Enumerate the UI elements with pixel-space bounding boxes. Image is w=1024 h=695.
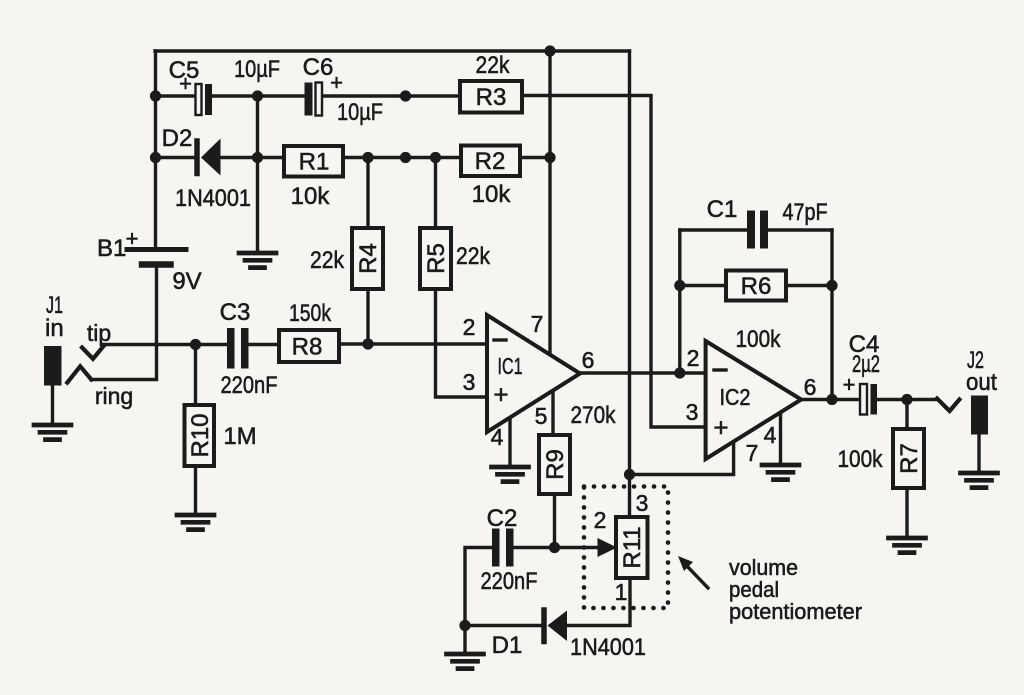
wire C6 to node above R3: [322, 94, 406, 97]
svg-text:+: +: [843, 372, 856, 397]
svg-text:3: 3: [686, 399, 699, 425]
svg-text:4: 4: [764, 422, 777, 448]
wire battery negative down and to ring contact: [91, 267, 157, 380]
node D2-R1 junction: [252, 152, 263, 163]
node feedback R6 left: [674, 280, 685, 291]
capacitor C5: [169, 56, 280, 115]
svg-text:+: +: [493, 380, 508, 410]
wire R9 bottom to C2 net: [553, 494, 556, 548]
svg-text:47pF: 47pF: [783, 199, 828, 226]
jack J2: [937, 347, 997, 472]
svg-text:2: 2: [463, 314, 476, 340]
wire tip contact to C3: [103, 343, 228, 346]
wire D1 left segment: [465, 624, 542, 627]
svg-text:2: 2: [594, 507, 607, 533]
node C5 left row1: [150, 90, 161, 101]
wire C3 to R8: [248, 343, 279, 346]
svg-text:1M: 1M: [223, 423, 256, 450]
svg-text:150k: 150k: [289, 300, 332, 327]
wire D1 node to ground: [463, 626, 466, 654]
svg-text:D2: D2: [162, 125, 193, 152]
capacitor C3: [220, 299, 278, 399]
svg-text:+: +: [179, 71, 192, 96]
resistor R9: [539, 402, 616, 494]
dotted enclosure volume pedal potentiometer: [584, 487, 668, 609]
wire IC1 pin 5 down to R9: [551, 391, 554, 436]
svg-text:R4: R4: [355, 243, 382, 274]
annotation arrow to R11: [678, 556, 708, 588]
node +9V / R11 pin3 / IC2 pin7 junction: [624, 469, 635, 480]
svg-text:1: 1: [615, 579, 628, 605]
wire IC2 pin 4 stem to ground: [779, 412, 782, 464]
svg-text:C3: C3: [220, 299, 251, 326]
svg-text:3: 3: [463, 369, 476, 395]
wire top +9V rail horizontal: [155, 49, 630, 52]
node top rail / IC1 pin7 branch: [544, 45, 555, 56]
svg-text:D1: D1: [492, 632, 523, 659]
node IC2 output: [826, 394, 837, 405]
wire C2 right to R11 wiper arrow: [514, 546, 601, 550]
svg-text:B1: B1: [97, 235, 126, 262]
node R5 top: [430, 152, 441, 163]
node R4 bottom on pin2 wire: [362, 338, 373, 349]
wire R6 left: [680, 284, 726, 287]
svg-text:22k: 22k: [456, 243, 491, 270]
node C6 / R3 left junction: [400, 90, 411, 101]
svg-text:R7: R7: [896, 443, 923, 474]
diode D1: [492, 610, 646, 661]
ground IC1 pin 4: [492, 467, 529, 482]
node R2 right on rail: [544, 152, 555, 163]
wire IC2 pin 7 to +9V net: [630, 442, 734, 475]
ground J2: [961, 473, 998, 488]
wire output node down to R7: [905, 400, 908, 430]
svg-text:ring: ring: [95, 383, 133, 409]
wire R8 to IC1 pin 2: [339, 342, 487, 345]
resistor R3: [460, 52, 522, 113]
svg-text:220nF: 220nF: [221, 372, 278, 399]
resistor R5: [420, 228, 491, 289]
wire IC1 output to IC2 pin 2: [580, 371, 706, 374]
ground C2/D1 node: [447, 654, 484, 669]
svg-text:1N4001: 1N4001: [570, 634, 646, 661]
svg-text:2: 2: [687, 345, 700, 371]
battery B1: [97, 226, 202, 295]
ground R7: [889, 538, 926, 553]
svg-text:+: +: [713, 413, 728, 443]
svg-text:10k: 10k: [291, 183, 331, 210]
node R9 / C2 junction: [549, 542, 560, 553]
svg-text:tip: tip: [87, 320, 111, 346]
svg-text:R5: R5: [423, 243, 450, 274]
svg-text:4: 4: [491, 424, 504, 450]
svg-text:270k: 270k: [571, 402, 617, 429]
wire C5-C6 junction down to ground: [256, 96, 259, 251]
svg-text:+: +: [330, 70, 343, 95]
wire R5 top stem: [434, 158, 437, 229]
capacitor C4: [843, 331, 880, 415]
svg-text:IC2: IC2: [720, 384, 751, 410]
svg-text:R10: R10: [187, 413, 214, 457]
resistor R7: [838, 429, 925, 488]
ground IC2 pin 4: [762, 465, 799, 480]
wire feedback top left to C1: [680, 228, 748, 231]
wire R7 bottom to ground: [905, 487, 908, 537]
wire row1 segment to C5: [156, 94, 197, 97]
capacitor C2: [481, 505, 538, 595]
svg-text:C6: C6: [303, 54, 334, 81]
wire R3 output to IC2 pin 3: [522, 96, 706, 428]
node C5-C6 junction: [252, 90, 263, 101]
svg-text:7: 7: [746, 440, 759, 466]
svg-text:2µ2: 2µ2: [852, 351, 880, 378]
wire R4 bottom stem to pin2 net: [366, 289, 369, 344]
wire C1 to right corner: [767, 228, 832, 231]
resistor R1: [284, 146, 343, 210]
svg-text:C1: C1: [707, 196, 738, 223]
svg-text:22k: 22k: [476, 52, 511, 79]
svg-text:100k: 100k: [736, 326, 782, 353]
resistor R2: [461, 146, 520, 209]
capacitor C1: [707, 196, 828, 249]
wire R10 bottom to ground: [194, 466, 197, 514]
node C2 / D1 junction: [459, 620, 470, 631]
wire left vertical (top rail down to battery): [154, 51, 157, 247]
resistor R6: [726, 271, 786, 354]
wire C4 to J2 tip: [877, 398, 937, 401]
svg-text:10µF: 10µF: [337, 99, 383, 126]
wire feedback vertical up from pin2 node of IC2: [678, 230, 681, 373]
node tip / R10 junction: [190, 339, 201, 350]
wire R6 right: [786, 284, 832, 287]
node C4 / R7 junction: [901, 394, 912, 405]
svg-text:5: 5: [535, 403, 548, 429]
svg-text:R3: R3: [476, 84, 507, 111]
potentiometer R11: [594, 490, 649, 605]
wire R2 right to +9V rail: [520, 156, 550, 159]
svg-text:22k: 22k: [310, 247, 345, 274]
svg-text:10k: 10k: [472, 181, 512, 208]
wire C5 to C6: [211, 94, 305, 97]
wire R4 top stem: [366, 158, 369, 229]
svg-text:6: 6: [582, 347, 595, 373]
svg-text:+: +: [126, 226, 139, 251]
node row2 left: [150, 152, 161, 163]
diode D2: [162, 125, 251, 212]
jack J1: [44, 292, 133, 424]
wire node on tip net down to R10: [194, 345, 197, 406]
wire feedback right vertical down to output: [830, 230, 833, 400]
svg-text:R9: R9: [542, 449, 569, 480]
svg-text:R11: R11: [619, 526, 646, 568]
wire IC2 output to C4: [801, 398, 860, 401]
svg-text:220nF: 220nF: [481, 568, 538, 595]
wire R5 bottom to IC1 pin 3: [436, 289, 488, 397]
resistor R4: [310, 228, 383, 289]
svg-text:R2: R2: [475, 148, 506, 175]
wire D1 anode to R11 pin 1: [566, 578, 630, 626]
annotation text volume pedal potentiometer: [729, 555, 862, 624]
svg-text:100k: 100k: [838, 446, 884, 473]
op-amp IC2: [686, 341, 817, 466]
node R4 top: [362, 152, 373, 163]
node IC1 out / feedback junction: [674, 367, 685, 378]
ground R10: [177, 515, 214, 530]
ground J1: [34, 425, 71, 440]
resistor R8: [279, 300, 339, 362]
svg-text:in: in: [45, 315, 64, 342]
wire +9V rail down to IC1 pin 7: [548, 51, 551, 355]
svg-text:R6: R6: [741, 273, 772, 300]
ground rail splitter (below D2 row): [239, 253, 276, 268]
svg-text:R8: R8: [292, 334, 323, 361]
node feedback R6 right: [826, 280, 837, 291]
svg-text:out: out: [966, 369, 997, 396]
wire IC1 pin 4 stem to ground: [508, 418, 511, 466]
svg-text:9V: 9V: [172, 268, 201, 295]
svg-text:3: 3: [636, 490, 649, 516]
wire R1 right to R2 left: [343, 156, 461, 159]
svg-text:6: 6: [804, 374, 817, 400]
svg-text:IC1: IC1: [498, 353, 523, 379]
svg-text:7: 7: [531, 311, 544, 337]
capacitor C6: [303, 54, 383, 126]
wire rail from top corner down to R11 pin 3: [628, 51, 631, 517]
wire node to R3 left: [406, 94, 461, 97]
resistor R10: [185, 405, 257, 466]
svg-text:1N4001: 1N4001: [175, 185, 251, 212]
wire row2 segment to D2 cathode: [156, 156, 196, 159]
svg-text:C2: C2: [487, 505, 518, 532]
op-amp IC1: [463, 311, 595, 450]
svg-text:R1: R1: [299, 149, 330, 176]
node row2 / R3 branch: [400, 152, 411, 163]
svg-text:potentiometer: potentiometer: [729, 599, 862, 624]
wire C2 left down to D1 net: [465, 548, 492, 626]
svg-text:10µF: 10µF: [234, 56, 280, 83]
wire D2 anode to R1 left: [220, 156, 284, 159]
